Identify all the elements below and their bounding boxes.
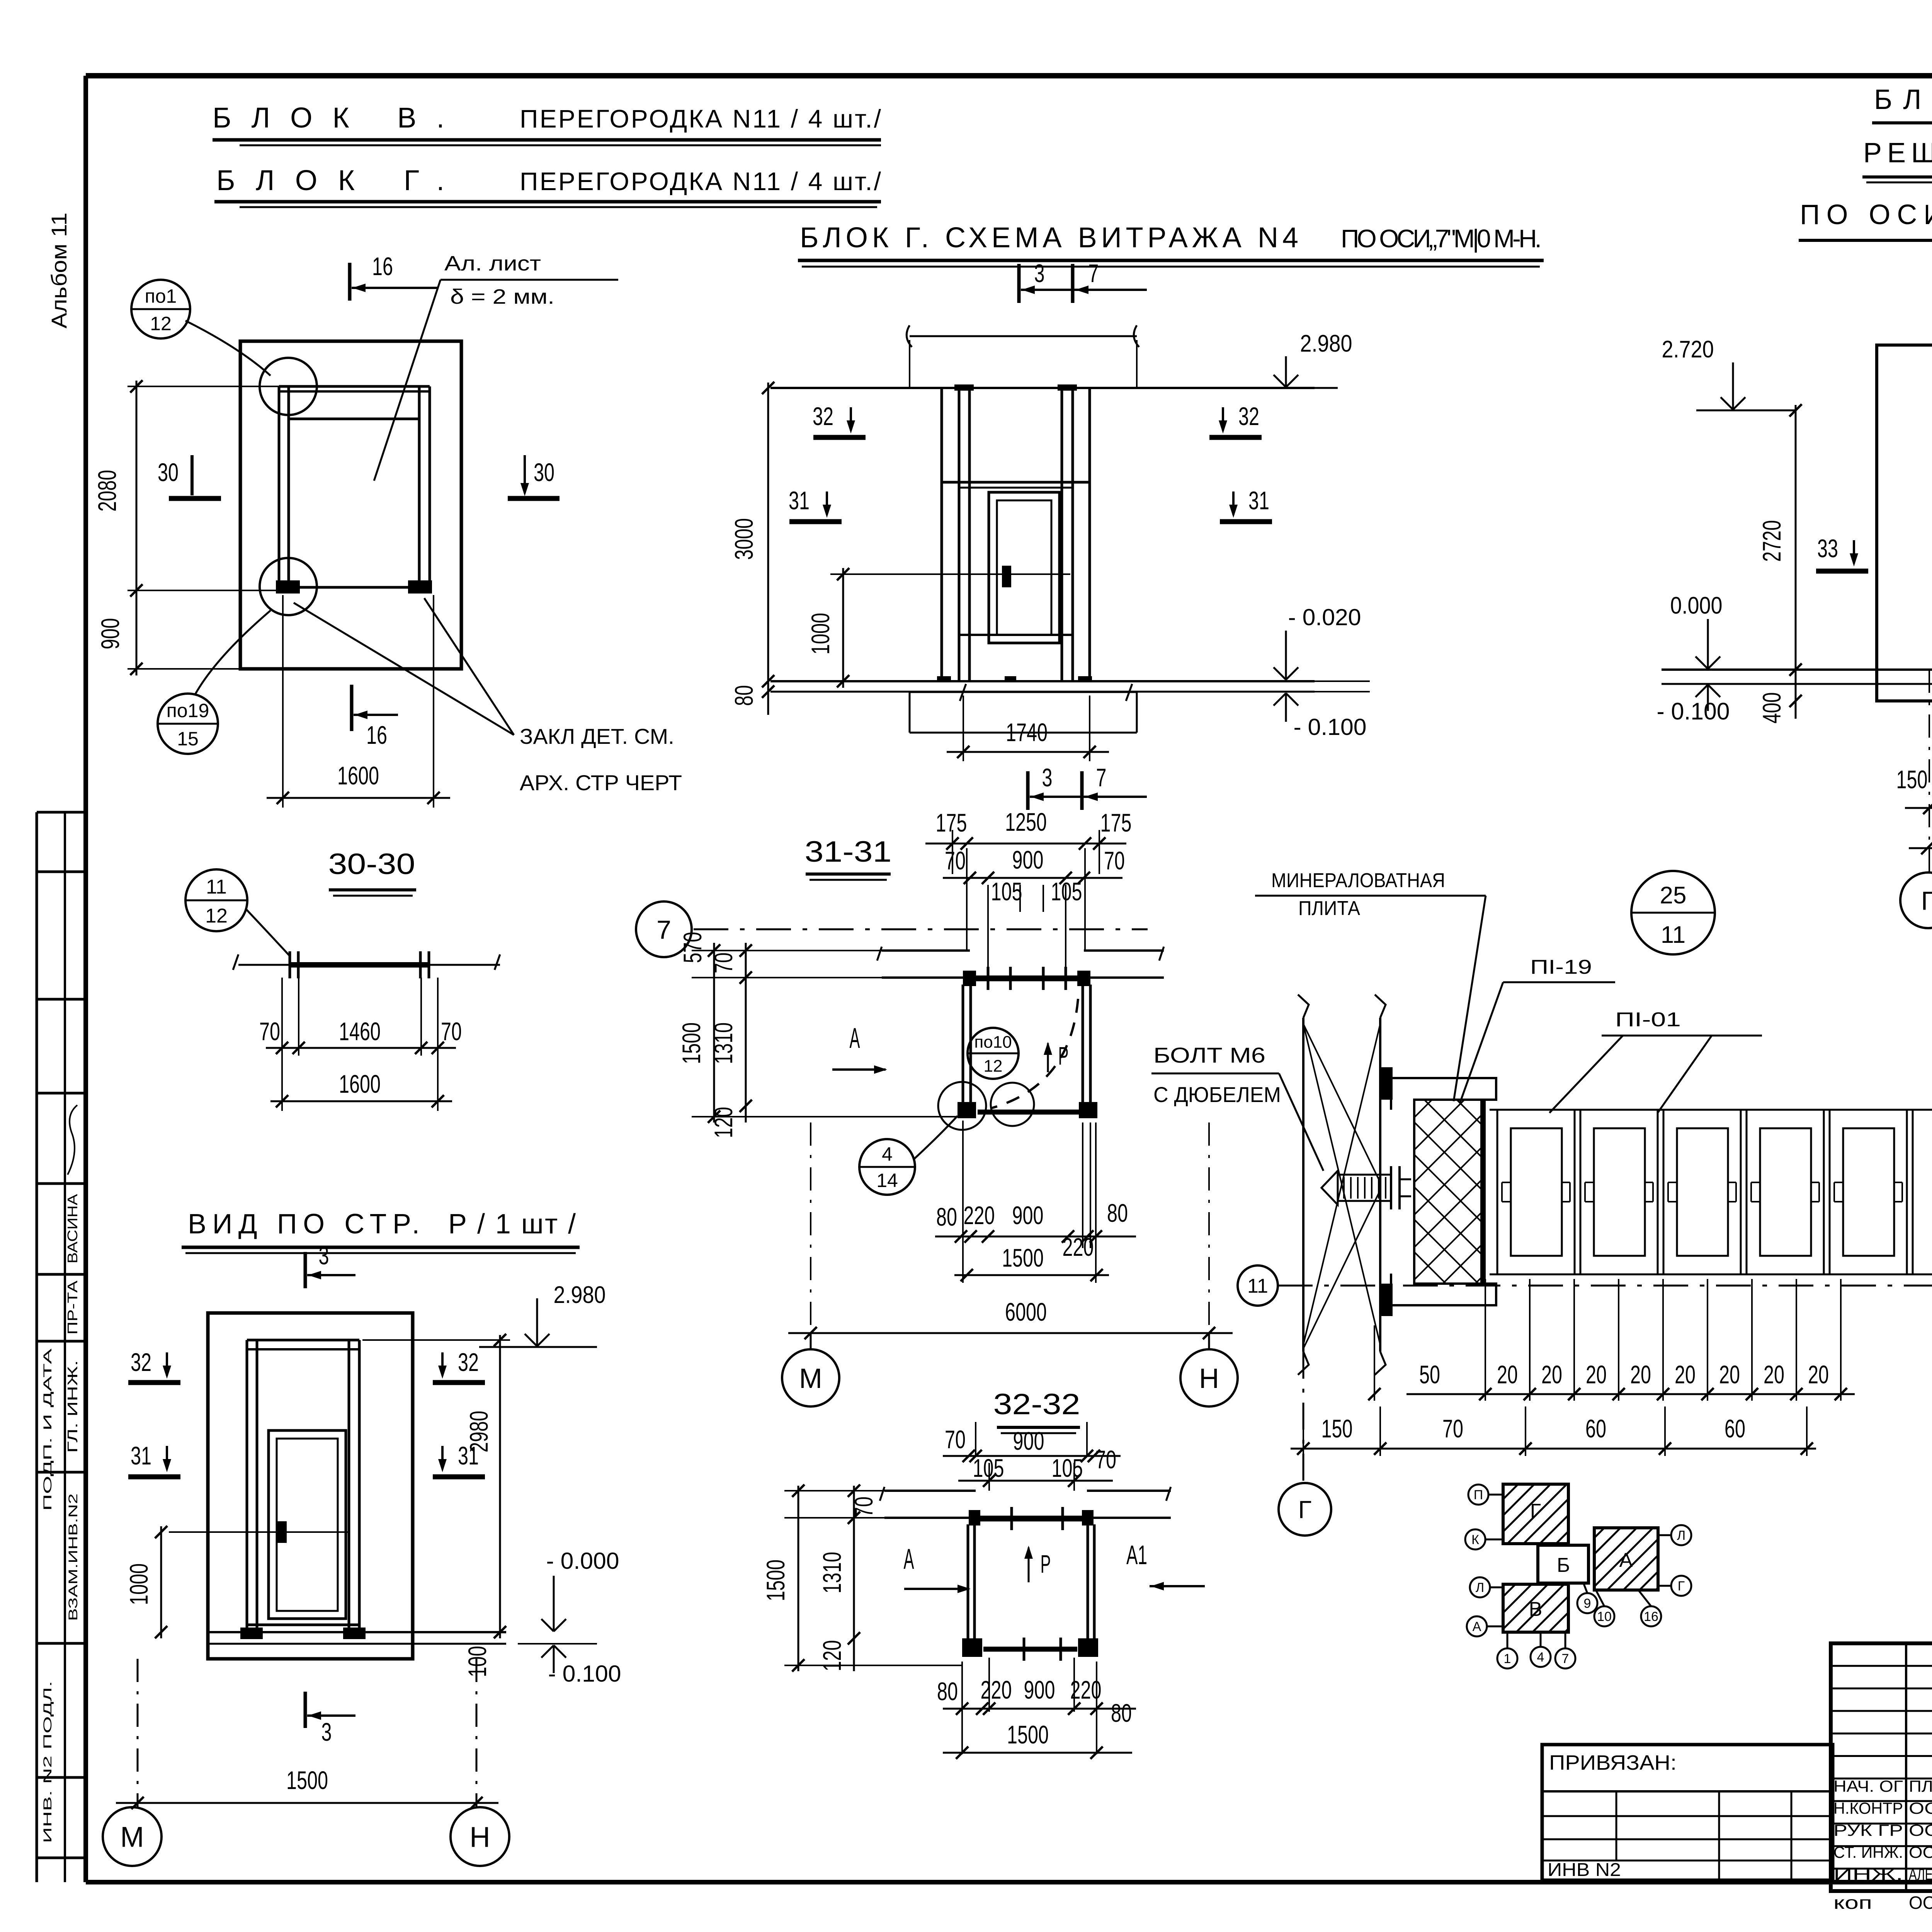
svg-text:30: 30	[534, 458, 554, 486]
svg-text:Р: Р	[1058, 1041, 1069, 1070]
axis circle Г detail	[1303, 1352, 1304, 1483]
svg-text:20: 20	[1586, 1360, 1607, 1389]
svg-text:31-31: 31-31	[805, 835, 892, 868]
svg-text:Б: Б	[1557, 1554, 1570, 1577]
svg-text:ПЛИТА: ПЛИТА	[1298, 897, 1360, 920]
detail bubble 25/11	[1631, 871, 1715, 954]
svg-text:3: 3	[1042, 763, 1053, 792]
axis circle 7	[636, 901, 692, 957]
partition frame bottom pads	[276, 580, 300, 594]
detail bubble 11/12	[185, 869, 247, 931]
dimension 1500 view R	[137, 1659, 139, 1808]
svg-text:БЛОК Г. СХЕМА ВИТРАЖА N4: БЛОК Г. СХЕМА ВИТРАЖА N4	[800, 221, 1298, 253]
view R frame stiles	[246, 1340, 248, 1634]
section mark 16 bottom	[350, 685, 354, 731]
svg-text:Г: Г	[1530, 1500, 1541, 1522]
section mark 16 top	[348, 263, 352, 301]
detail bubble по1/12	[131, 280, 190, 338]
svg-text:ЗАКЛ ДЕТ. СМ.: ЗАКЛ ДЕТ. СМ.	[520, 724, 674, 748]
svg-text:НАЧ. ОГ: НАЧ. ОГ	[1833, 1777, 1903, 1795]
svg-text:- 0.000: - 0.000	[546, 1548, 619, 1574]
svg-text:3: 3	[1034, 259, 1045, 287]
bracket profile	[1391, 1078, 1496, 1305]
section marks 3 7 bottom vitrage	[1026, 771, 1030, 810]
svg-text:- 0.020: - 0.020	[1288, 604, 1361, 630]
svg-text:900: 900	[96, 618, 124, 650]
view R stile feet	[240, 1628, 263, 1639]
svg-text:32: 32	[458, 1348, 479, 1376]
svg-text:900: 900	[1013, 1427, 1044, 1455]
svg-text:31: 31	[1248, 486, 1269, 515]
svg-text:1000: 1000	[806, 613, 835, 655]
svg-text:32-32: 32-32	[993, 1388, 1080, 1421]
svg-text:30-30: 30-30	[328, 848, 415, 881]
detail circle bottom corner	[260, 558, 317, 615]
leader ЗАКЛ ДЕТ	[294, 603, 514, 735]
vitrage bottom slab	[910, 691, 1137, 693]
svg-text:9: 9	[1584, 1596, 1591, 1611]
31-31 dim 6000	[810, 1122, 811, 1345]
svg-text:Н.КОНТР: Н.КОНТР	[1833, 1799, 1903, 1817]
svg-text:16: 16	[1644, 1609, 1658, 1624]
key plan block Г	[1503, 1484, 1568, 1544]
vitrage stile feet	[937, 676, 951, 682]
svg-text:Н: Н	[1199, 1363, 1219, 1394]
partition elevation wall outline	[240, 341, 461, 669]
svg-text:М: М	[120, 1821, 144, 1853]
svg-text:Л: Л	[1476, 1580, 1484, 1595]
svg-text:СТ. ИНЖ.: СТ. ИНЖ.	[1833, 1843, 1903, 1861]
svg-text:20: 20	[1497, 1360, 1518, 1389]
svg-text:2.980: 2.980	[554, 1282, 606, 1308]
svg-text:ВЗАМ.ИНВ.N2: ВЗАМ.ИНВ.N2	[66, 1493, 80, 1621]
svg-text:14: 14	[876, 1170, 898, 1191]
31-31 door leaf and swing	[978, 1110, 1082, 1115]
signature table	[1831, 1643, 1932, 1891]
grate dims 150 1870	[1929, 670, 1930, 872]
svg-text:4: 4	[1537, 1650, 1544, 1665]
section 30-30 dim 1600	[270, 1100, 452, 1102]
dimension 1000 vitrage	[842, 568, 844, 688]
svg-text:δ = 2 мм.: δ = 2 мм.	[450, 285, 554, 308]
detail bubble по10/12	[968, 1028, 1019, 1079]
svg-text:60: 60	[1725, 1414, 1745, 1443]
svg-text:80: 80	[730, 685, 758, 706]
svg-text:РУК ГР: РУК ГР	[1833, 1821, 1903, 1839]
key plan node circles	[1468, 1485, 1488, 1505]
dimension 3000 vitrage	[767, 383, 769, 688]
svg-text:33: 33	[1817, 534, 1838, 563]
svg-text:20: 20	[1808, 1360, 1829, 1389]
key plan block В	[1503, 1584, 1568, 1632]
svg-text:Л: Л	[1677, 1528, 1685, 1543]
svg-text:А: А	[1619, 1549, 1633, 1571]
svg-text:- 0.100: - 0.100	[548, 1661, 621, 1687]
svg-text:ПI-01: ПI-01	[1615, 1009, 1681, 1031]
svg-text:Н: Н	[469, 1821, 490, 1853]
31-31 bottom dims 80 220 900 80	[962, 1121, 964, 1283]
section mark 3 top	[304, 1252, 307, 1288]
svg-text:1: 1	[1504, 1651, 1511, 1666]
svg-text:2720: 2720	[1757, 520, 1786, 562]
svg-text:К: К	[1471, 1532, 1479, 1547]
grate wall outline	[1877, 345, 1932, 701]
svg-text:ПРИВЯЗАН:: ПРИВЯЗАН:	[1549, 1751, 1677, 1774]
svg-text:- 0.100: - 0.100	[1657, 698, 1730, 725]
vitrage door	[989, 492, 1060, 643]
svg-text:А1: А1	[1126, 1540, 1147, 1570]
svg-text:Р: Р	[1041, 1549, 1051, 1578]
svg-text:175: 175	[936, 808, 967, 837]
svg-text:1310: 1310	[709, 1022, 738, 1064]
section mark 31 view R right	[441, 1446, 444, 1469]
svg-text:МИНЕРАЛОВАТНАЯ: МИНЕРАЛОВАТНАЯ	[1271, 869, 1445, 892]
detail dims 50 and 20s	[1374, 1325, 1375, 1401]
svg-text:1500: 1500	[1007, 1720, 1049, 1749]
level -0.100 vitrage	[1286, 693, 1298, 706]
svg-text:31: 31	[789, 486, 810, 515]
svg-text:1500: 1500	[286, 1766, 328, 1794]
handle centerline	[270, 1531, 350, 1533]
svg-text:В: В	[1529, 1598, 1543, 1621]
grate floor lines	[1662, 668, 1932, 671]
level -0.100 view R	[554, 1645, 566, 1658]
svg-text:2.980: 2.980	[1300, 330, 1352, 357]
svg-text:ИНВ. N2 ПОДЛ.: ИНВ. N2 ПОДЛ.	[41, 1681, 54, 1843]
svg-text:ПЕРЕГОРОДКА N11 / 4 шт./: ПЕРЕГОРОДКА N11 / 4 шт./	[520, 167, 881, 196]
31-31 Р label	[1047, 1043, 1049, 1072]
32-32 bottom posts	[962, 1638, 982, 1657]
svg-text:1000: 1000	[124, 1563, 153, 1605]
svg-text:7: 7	[1562, 1651, 1569, 1666]
svg-text:80: 80	[937, 1677, 958, 1706]
svg-text:32: 32	[813, 402, 833, 430]
svg-text:А: А	[1473, 1619, 1481, 1634]
vitrage top wall line	[770, 387, 1315, 389]
left margin signature scribble	[68, 1105, 77, 1175]
dimension 1600 bottom	[282, 595, 284, 808]
dimension 1000 view R	[160, 1526, 162, 1638]
svg-text:70: 70	[849, 1497, 878, 1517]
svg-text:6000: 6000	[1005, 1298, 1047, 1326]
32-32 top dims	[975, 1422, 976, 1456]
svg-text:Г: Г	[1921, 886, 1932, 915]
svg-text:900: 900	[1024, 1675, 1055, 1704]
svg-text:3000: 3000	[730, 518, 758, 560]
32-32 dim 1500 bottom	[943, 1752, 1132, 1754]
svg-text:по10: по10	[974, 1032, 1012, 1051]
dimension 2720 grate	[1795, 405, 1797, 676]
svg-text:АРХ. СТР ЧЕРТ: АРХ. СТР ЧЕРТ	[520, 770, 682, 795]
svg-text:ИНВ N2: ИНВ N2	[1548, 1860, 1621, 1880]
svg-text:С ДЮБЕЛЕМ: С ДЮБЕЛЕМ	[1153, 1082, 1281, 1107]
32-32 Р arrow	[1028, 1548, 1030, 1582]
svg-text:ПI-19: ПI-19	[1530, 956, 1592, 978]
svg-text:120: 120	[818, 1640, 846, 1672]
svg-text:25: 25	[1660, 882, 1687, 909]
svg-text:220: 220	[1070, 1675, 1102, 1704]
svg-text:31: 31	[131, 1441, 151, 1470]
svg-text:ГЛ. ИНЖ.: ГЛ. ИНЖ.	[65, 1360, 80, 1453]
svg-text:по1: по1	[145, 285, 177, 307]
svg-text:ПР-ТА: ПР-ТА	[65, 1281, 80, 1335]
wall section verticals	[1302, 1018, 1304, 1352]
svg-text:ОСТРЕЙКО: ОСТРЕЙКО	[1909, 1843, 1932, 1861]
svg-text:1600: 1600	[339, 1070, 381, 1098]
svg-text:30: 30	[158, 458, 179, 486]
svg-text:1310: 1310	[818, 1552, 846, 1594]
panels ПИ-01	[1490, 1109, 1932, 1111]
svg-text:3: 3	[319, 1241, 329, 1270]
svg-text:570: 570	[678, 932, 707, 963]
svg-text:Г: Г	[1678, 1579, 1685, 1594]
svg-text:1250: 1250	[1005, 808, 1047, 836]
grate dim 2020	[1909, 847, 1932, 849]
svg-text:150: 150	[1321, 1414, 1353, 1443]
view R wall outline	[208, 1313, 413, 1659]
svg-text:1600: 1600	[337, 761, 379, 790]
svg-text:60: 60	[1585, 1414, 1606, 1443]
svg-text:ВАСИНА: ВАСИНА	[65, 1194, 80, 1264]
svg-text:220: 220	[964, 1201, 995, 1230]
31-31 partition head	[971, 976, 1083, 981]
svg-text:0.000: 0.000	[1670, 592, 1723, 619]
svg-text:2.720: 2.720	[1662, 336, 1714, 363]
detail circle top corner	[260, 358, 317, 415]
svg-text:105: 105	[973, 1454, 1004, 1482]
svg-text:Альбом 11: Альбом 11	[47, 213, 71, 328]
svg-text:20: 20	[1675, 1360, 1696, 1389]
sheet border frame	[86, 73, 1932, 78]
section marks 3 7 top vitrage	[1017, 264, 1021, 303]
bracket gasket top	[1380, 1067, 1393, 1100]
svg-text:80: 80	[1107, 1199, 1128, 1227]
svg-text:900: 900	[1012, 845, 1044, 874]
svg-text:70: 70	[945, 1425, 966, 1454]
svg-text:120: 120	[709, 1107, 738, 1138]
svg-text:А: А	[904, 1543, 914, 1575]
axis circle М 31-31	[782, 1349, 839, 1406]
key plan block Б	[1538, 1545, 1588, 1583]
32-32 bottom dims	[988, 1658, 990, 1712]
vitrage top pads	[954, 384, 974, 391]
svg-text:11: 11	[206, 876, 227, 898]
svg-text:ПЕРЕГОРОДКА N11 / 4 шт./: ПЕРЕГОРОДКА N11 / 4 шт./	[520, 104, 881, 133]
svg-text:7: 7	[1096, 763, 1107, 792]
section mark 3 bottom view R	[304, 1692, 307, 1728]
31-31 dim 1500	[954, 1274, 1109, 1276]
svg-text:105: 105	[1052, 1454, 1083, 1482]
31-31 wall band	[882, 949, 970, 952]
svg-text:15: 15	[177, 728, 199, 750]
svg-text:П: П	[1474, 1488, 1483, 1502]
svg-text:7: 7	[656, 915, 671, 944]
view R door panel	[269, 1430, 346, 1619]
31-31 second dims 70 900 70	[943, 877, 1122, 879]
svg-text:ПЛАТОНОВ: ПЛАТОНОВ	[1909, 1777, 1932, 1795]
svg-text:175: 175	[1100, 808, 1132, 837]
svg-text:ИНЖ.: ИНЖ.	[1833, 1865, 1903, 1883]
svg-text:105: 105	[991, 877, 1022, 906]
32-32 partition walls	[967, 1524, 969, 1640]
svg-text:70: 70	[441, 1017, 462, 1046]
svg-text:ПО ОСИ„7"М|0 М-Н.: ПО ОСИ„7"М|0 М-Н.	[1341, 224, 1542, 253]
vitrage floor lines	[770, 680, 1315, 682]
svg-text:900: 900	[1012, 1201, 1044, 1230]
svg-text:БОЛТ М6: БОЛТ М6	[1153, 1043, 1265, 1067]
svg-text:4: 4	[882, 1143, 893, 1165]
svg-text:ОСАДЬКО: ОСАДЬКО	[1909, 1799, 1932, 1817]
key plan block А	[1594, 1528, 1658, 1590]
svg-text:12: 12	[205, 905, 228, 927]
axis circle 11 detail	[1238, 1265, 1278, 1306]
partition frame right stile	[418, 386, 421, 590]
detail bubble 4/14	[859, 1139, 915, 1195]
31-31 left dims	[713, 943, 715, 1122]
svg-text:ПОДП. И ДАТА: ПОДП. И ДАТА	[41, 1349, 54, 1511]
svg-text:3: 3	[321, 1718, 332, 1746]
vitrage frame verticals	[940, 388, 943, 681]
svg-text:20: 20	[1764, 1360, 1784, 1389]
axis circle М view R	[103, 1807, 162, 1866]
svg-text:32: 32	[131, 1348, 151, 1376]
detail dims 150 70 60 60	[1291, 1448, 1816, 1450]
svg-text:1740: 1740	[1006, 718, 1048, 747]
handle centerline vitrage	[893, 573, 1070, 575]
svg-text:ВИД ПО СТР.: ВИД ПО СТР.	[188, 1209, 420, 1240]
svg-text:80: 80	[1111, 1699, 1132, 1727]
dimension 1740 vitrage	[963, 696, 964, 761]
axis line 11 horizontal	[1278, 1285, 1932, 1287]
svg-text:ОСИПОВА: ОСИПОВА	[1909, 1893, 1932, 1913]
svg-text:2080: 2080	[93, 470, 121, 512]
svg-text:16: 16	[372, 252, 393, 281]
left margin table	[36, 812, 38, 1882]
svg-text:11: 11	[1247, 1275, 1268, 1298]
view R frame rails	[247, 1339, 359, 1342]
partition frame top rails	[279, 385, 430, 388]
svg-text:11: 11	[1661, 922, 1685, 948]
svg-text:7: 7	[1088, 259, 1099, 287]
svg-text:Г: Г	[1298, 1496, 1312, 1524]
svg-text:31: 31	[458, 1441, 479, 1470]
mineral wool block	[1414, 1100, 1483, 1284]
31-31 top dims 175 1250 175	[952, 830, 953, 874]
axis circle Н 31-31	[1180, 1349, 1238, 1406]
svg-text:20: 20	[1719, 1360, 1740, 1389]
partition frame bottom rail	[289, 586, 419, 589]
svg-text:РЕШЕТКА N1 / 1 шт./: РЕШЕТКА N1 / 1 шт./	[1863, 138, 1932, 168]
svg-text:70: 70	[945, 846, 966, 875]
panel retainer bar	[1480, 1100, 1486, 1284]
svg-text:12: 12	[984, 1057, 1003, 1076]
svg-text:А: А	[850, 1022, 860, 1054]
svg-text:Ал. лист: Ал. лист	[444, 252, 541, 275]
aux table ПРИВЯЗАН	[1542, 1745, 1833, 1880]
svg-text:по19: по19	[167, 700, 209, 721]
svg-text:80: 80	[936, 1202, 957, 1231]
svg-text:70: 70	[1104, 846, 1125, 875]
32-32 partition head	[980, 1516, 1082, 1522]
svg-text:10: 10	[1597, 1609, 1612, 1624]
svg-text:70: 70	[1442, 1414, 1463, 1443]
31-31 partition walls in plan	[962, 985, 964, 1106]
32-32 wall band	[884, 1490, 976, 1492]
svg-text:1500: 1500	[761, 1560, 790, 1601]
svg-text:1500: 1500	[677, 1022, 706, 1064]
axis circle Н view R	[451, 1807, 509, 1866]
32-32 left dims	[798, 1486, 799, 1671]
svg-text:150: 150	[1896, 765, 1928, 794]
wall cross bracing	[1303, 1024, 1380, 1345]
svg-text:220: 220	[981, 1675, 1012, 1704]
svg-text:12: 12	[150, 313, 172, 335]
section 30-30 dims 70 1460 70	[281, 978, 283, 1111]
svg-text:20: 20	[1541, 1360, 1562, 1389]
detail bubble по19/15	[158, 694, 218, 754]
svg-text:70: 70	[709, 952, 738, 973]
svg-text:ОСАДЬКО: ОСАДЬКО	[1909, 1821, 1932, 1839]
partition frame left stile	[278, 386, 281, 590]
view R door handle	[277, 1521, 287, 1543]
section 30-30 stile cuts	[289, 951, 291, 978]
svg-text:1460: 1460	[339, 1017, 381, 1046]
svg-text:50: 50	[1419, 1360, 1440, 1389]
dimension 2980 view R	[499, 1335, 501, 1638]
svg-text:20: 20	[1630, 1360, 1651, 1389]
axis circle Г grate	[1900, 872, 1932, 928]
bracket gasket bottom	[1380, 1284, 1393, 1316]
vitrage bottom rail	[959, 634, 1073, 636]
bolt М6	[1321, 1171, 1338, 1205]
svg-text:- 0.100: - 0.100	[1294, 714, 1367, 740]
svg-text:16: 16	[366, 721, 387, 749]
vitrage top slab dim line with breaks	[910, 335, 1137, 337]
svg-text:400: 400	[1757, 692, 1786, 724]
svg-text:1500: 1500	[1002, 1243, 1044, 1272]
svg-text:коп: коп	[1833, 1893, 1872, 1913]
31-31 bottom posts	[957, 1102, 976, 1118]
vitrage transom rail	[942, 481, 1090, 484]
svg-text:70: 70	[259, 1017, 280, 1046]
section 30-30 wall lines	[238, 964, 289, 966]
dimension 2080/900 vertical	[136, 381, 138, 675]
svg-text:АЛЕКСАНДРОВА: АЛЕКСАНДРОВА	[1909, 1865, 1932, 1883]
31-31 corner circles	[938, 1082, 986, 1130]
axis line 7	[694, 929, 1148, 930]
view R floor lines	[208, 1631, 506, 1633]
section mark 32 view R right	[441, 1352, 444, 1376]
svg-text:М: М	[799, 1363, 822, 1394]
svg-text:220: 220	[1063, 1233, 1094, 1261]
svg-text:70: 70	[1095, 1445, 1116, 1474]
svg-text:32: 32	[1238, 402, 1259, 430]
